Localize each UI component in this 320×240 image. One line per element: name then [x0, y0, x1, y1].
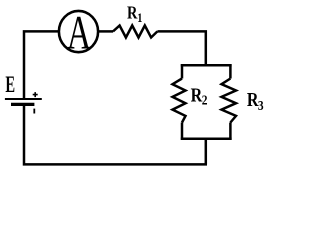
svg-text:1: 1	[137, 12, 142, 25]
svg-text:A: A	[67, 6, 91, 59]
resistor R1 zigzag	[113, 26, 157, 38]
svg-text:3: 3	[258, 98, 264, 113]
wire right branch bottom	[229, 123, 232, 140]
wire R1 to top-right corner and down into parallel block	[157, 31, 205, 65]
resistor R2 zigzag	[173, 79, 186, 123]
battery E short negative plate	[11, 103, 34, 106]
battery minus tick	[33, 109, 35, 114]
wire right branch top	[229, 64, 232, 78]
battery plus sign	[33, 92, 38, 97]
svg-text:R: R	[127, 2, 138, 23]
ammeter U1 circle	[59, 11, 98, 52]
node bottom rail of parallel block	[181, 138, 232, 141]
wire bottom-left: from battery down and bottom horizontal	[24, 104, 207, 164]
svg-text:E: E	[5, 73, 15, 98]
node top rail of parallel block	[181, 64, 232, 67]
wire ammeter to R1	[98, 30, 113, 33]
svg-text:2: 2	[202, 93, 208, 108]
wire left branch bottom	[181, 123, 184, 140]
wire center vertical below parallel block	[205, 139, 208, 165]
wire left branch top	[181, 64, 184, 78]
battery E long positive plate	[5, 98, 42, 100]
wire top-left: horizontal to left vertical down to battery	[24, 31, 59, 99]
resistor R3 zigzag	[222, 79, 237, 123]
